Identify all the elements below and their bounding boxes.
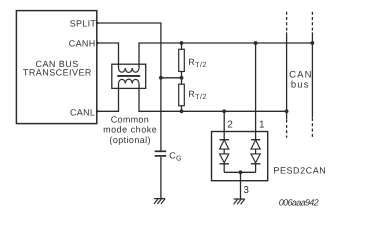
svg-text:(optional): (optional) [109, 135, 151, 145]
svg-text:CANL: CANL [70, 108, 95, 118]
svg-text:PESD2CAN: PESD2CAN [273, 165, 326, 175]
svg-text:mode choke: mode choke [103, 125, 157, 135]
svg-text:006aaa942: 006aaa942 [279, 198, 319, 208]
svg-text:1: 1 [259, 120, 265, 131]
svg-text:Common: Common [111, 114, 149, 124]
svg-text:TRANSCEIVER: TRANSCEIVER [23, 68, 92, 78]
svg-text:CANH: CANH [69, 39, 96, 49]
svg-text:bus: bus [291, 79, 310, 90]
svg-text:3: 3 [243, 185, 249, 196]
svg-text:SPLIT: SPLIT [70, 19, 97, 29]
svg-text:2: 2 [227, 120, 233, 131]
